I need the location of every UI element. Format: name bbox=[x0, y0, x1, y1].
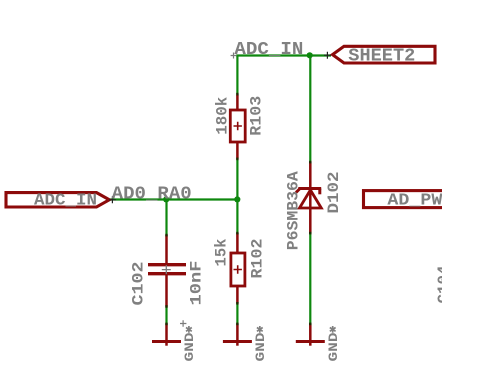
svg-text:ADC_IN: ADC_IN bbox=[234, 40, 303, 60]
svg-text:GND: GND bbox=[326, 332, 341, 361]
svg-text:15k: 15k bbox=[213, 238, 231, 266]
svg-text:ADC_IN: ADC_IN bbox=[34, 191, 97, 210]
svg-text:AD_PW: AD_PW bbox=[387, 192, 443, 211]
svg-text:SHEET2: SHEET2 bbox=[348, 47, 415, 67]
svg-text:P6SMB36A: P6SMB36A bbox=[285, 171, 303, 250]
svg-text:R103: R103 bbox=[248, 96, 266, 136]
svg-text:GND: GND bbox=[182, 332, 197, 361]
svg-text:10nF: 10nF bbox=[188, 261, 206, 306]
svg-text:D102: D102 bbox=[325, 172, 343, 214]
svg-text:R102: R102 bbox=[249, 239, 267, 279]
svg-text:AD0_RA0: AD0_RA0 bbox=[112, 184, 192, 204]
svg-text:C102: C102 bbox=[130, 262, 148, 306]
svg-text:GND: GND bbox=[253, 332, 268, 361]
svg-text:180k: 180k bbox=[214, 96, 232, 134]
